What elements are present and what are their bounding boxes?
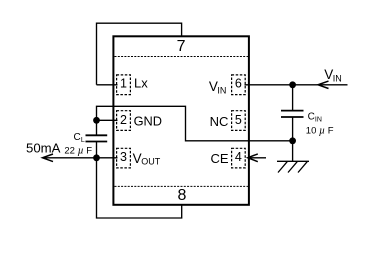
svg-text:CE: CE xyxy=(211,151,229,166)
svg-text:4: 4 xyxy=(235,150,242,164)
svg-text:3: 3 xyxy=(120,150,127,164)
svg-text:IN: IN xyxy=(333,74,342,84)
svg-text:OUT: OUT xyxy=(141,157,161,167)
svg-text:V: V xyxy=(133,151,142,166)
svg-text:7: 7 xyxy=(177,38,186,55)
svg-text:NC: NC xyxy=(210,114,229,129)
svg-text:5: 5 xyxy=(235,113,242,127)
svg-text:1: 1 xyxy=(120,76,127,90)
svg-text:IN: IN xyxy=(315,117,322,124)
svg-text:Lx: Lx xyxy=(134,76,148,91)
svg-text:IN: IN xyxy=(217,85,226,95)
svg-text:L: L xyxy=(81,137,85,144)
svg-text:10 µ F: 10 µ F xyxy=(306,125,334,136)
svg-text:2: 2 xyxy=(120,113,127,127)
svg-text:C: C xyxy=(74,132,81,143)
svg-text:8: 8 xyxy=(177,187,186,204)
svg-text:C: C xyxy=(308,112,315,123)
svg-text:GND: GND xyxy=(134,113,162,128)
svg-text:6: 6 xyxy=(235,76,242,90)
svg-text:50mA: 50mA xyxy=(26,140,61,155)
svg-text:22 µ F: 22 µ F xyxy=(64,145,92,156)
